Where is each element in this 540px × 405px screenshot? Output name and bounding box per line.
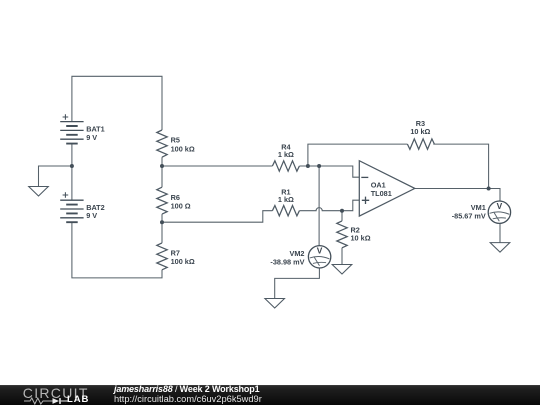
svg-text:R6: R6 bbox=[171, 193, 180, 202]
svg-text:R7: R7 bbox=[171, 249, 180, 258]
svg-text:VM1: VM1 bbox=[471, 203, 486, 212]
svg-text:100 kΩ: 100 kΩ bbox=[171, 257, 195, 266]
svg-text:10 kΩ: 10 kΩ bbox=[410, 127, 430, 136]
svg-text:V: V bbox=[317, 246, 323, 256]
svg-text:V: V bbox=[497, 201, 503, 211]
svg-text:R5: R5 bbox=[171, 136, 180, 145]
svg-text:-38.98 mV: -38.98 mV bbox=[270, 257, 304, 266]
svg-text:100 Ω: 100 Ω bbox=[171, 202, 191, 211]
svg-text:-85.67 mV: -85.67 mV bbox=[452, 212, 486, 221]
svg-text:100 kΩ: 100 kΩ bbox=[171, 144, 195, 153]
svg-text:9 V: 9 V bbox=[86, 211, 97, 220]
svg-text:1 kΩ: 1 kΩ bbox=[278, 195, 294, 204]
svg-text:TL081: TL081 bbox=[371, 189, 392, 198]
svg-text:1 kΩ: 1 kΩ bbox=[278, 150, 294, 159]
svg-text:9 V: 9 V bbox=[86, 133, 97, 142]
svg-text:10 kΩ: 10 kΩ bbox=[351, 234, 371, 243]
